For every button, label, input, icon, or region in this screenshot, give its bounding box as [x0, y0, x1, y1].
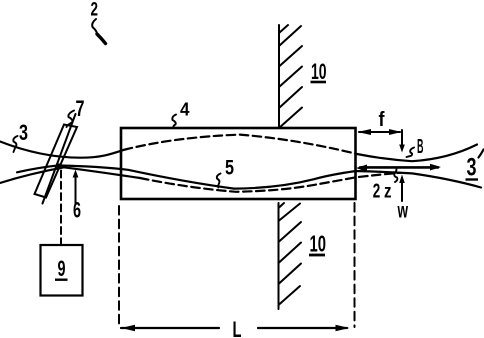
svg-text:10: 10	[311, 59, 327, 84]
svg-text:2: 2	[373, 181, 381, 203]
svg-text:w: w	[397, 200, 409, 223]
svg-text:9: 9	[58, 256, 66, 281]
svg-text:4: 4	[180, 99, 190, 120]
svg-text:f: f	[379, 109, 385, 131]
svg-text:2: 2	[91, 0, 99, 21]
svg-text:L: L	[233, 317, 242, 338]
svg-text:B: B	[417, 136, 424, 158]
svg-text:z: z	[384, 182, 392, 203]
svg-text:3: 3	[467, 154, 477, 182]
svg-text:10: 10	[310, 231, 327, 257]
svg-text:6: 6	[73, 198, 81, 223]
svg-text:7: 7	[76, 96, 85, 121]
svg-text:5: 5	[225, 157, 234, 180]
svg-text:3: 3	[19, 120, 28, 145]
